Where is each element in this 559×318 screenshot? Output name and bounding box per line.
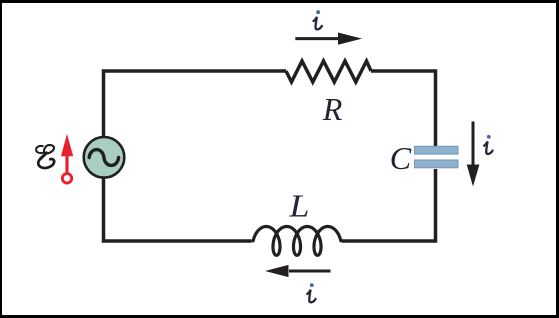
svg-text:C: C (390, 140, 412, 176)
svg-text:R: R (322, 91, 343, 127)
svg-text:L: L (288, 189, 309, 224)
